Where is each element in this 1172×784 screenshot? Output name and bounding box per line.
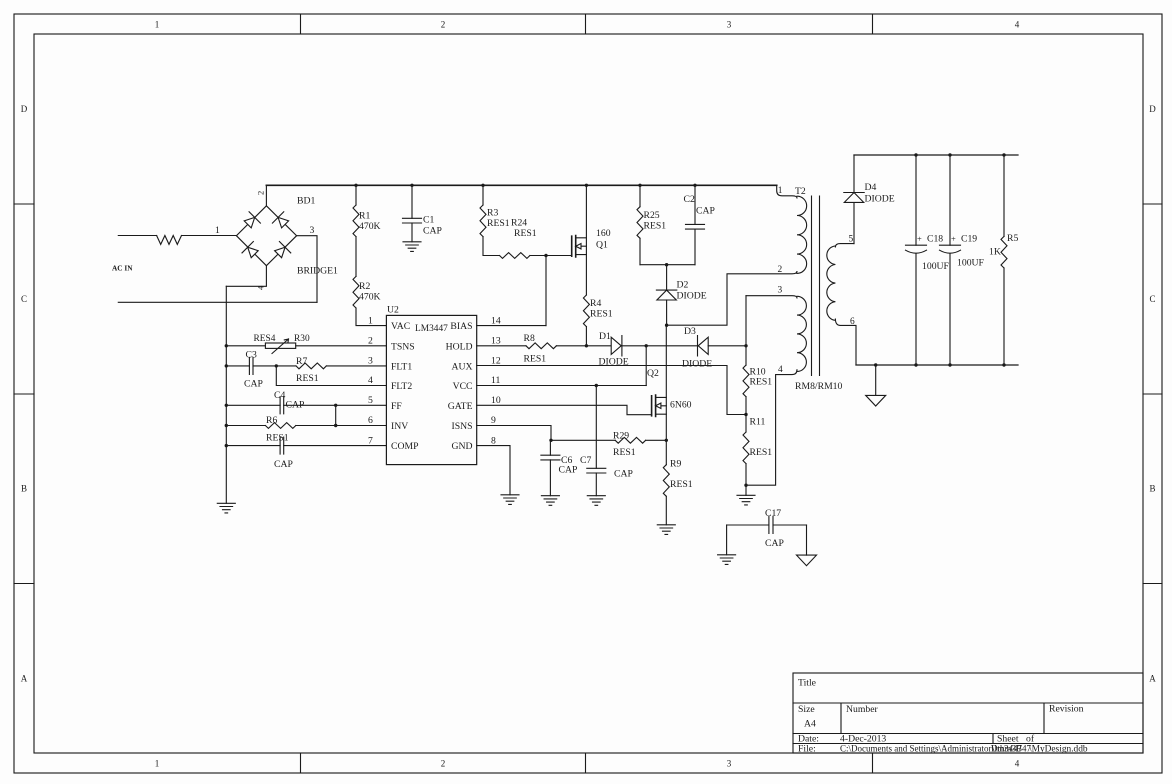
svg-text:A: A: [21, 674, 28, 684]
svg-text:BRIDGE1: BRIDGE1: [297, 266, 338, 277]
capacitor C7 CAP: [595, 386, 597, 469]
wire VCC riser: [645, 346, 647, 386]
junction (D2 bottom / T2 pin2 net): [665, 324, 668, 327]
svg-text:2: 2: [256, 191, 266, 195]
pin numbers U2 left: [368, 315, 373, 446]
svg-text:C18: C18: [927, 234, 943, 245]
bridge diode (pin4 to pin1, bottom-left): [242, 242, 258, 258]
wire D3 to R10 node: [708, 345, 746, 347]
wire output return rail: [856, 364, 1018, 366]
svg-text:1K: 1K: [989, 247, 1001, 258]
svg-text:RES1: RES1: [613, 447, 636, 458]
wire R8 to D1: [556, 345, 611, 347]
svg-text:3: 3: [727, 759, 732, 769]
wire output + rail: [854, 154, 1018, 156]
svg-text:14: 14: [491, 315, 501, 326]
svg-text:4: 4: [368, 375, 373, 386]
svg-text:D2: D2: [677, 280, 689, 291]
junction (R1/HV): [354, 184, 357, 187]
svg-text:9: 9: [491, 415, 496, 426]
resistor R29 RES1: [551, 439, 615, 441]
capacitor C5 CAP (COMP): [226, 445, 280, 447]
transformer T2 secondary winding (pins 5-6): [835, 244, 854, 247]
wire FF-INV jog: [335, 405, 337, 425]
svg-text:RES1: RES1: [487, 218, 510, 229]
resistor (AC inline, unlabeled): [157, 236, 182, 245]
resistor R4 RES1: [583, 295, 589, 327]
junction (R3/HV): [481, 184, 484, 187]
svg-text:2: 2: [778, 265, 783, 275]
capacitor C1 CAP: [411, 185, 413, 218]
svg-text:+: +: [917, 234, 922, 244]
svg-text:12: 12: [491, 356, 501, 367]
junction (Q1 drain/HV): [585, 184, 588, 187]
svg-text:7: 7: [368, 435, 373, 446]
resistor R6 RES1: [226, 425, 265, 427]
svg-text:COMP: COMP: [391, 441, 418, 452]
junction (R10/R11/AUX): [744, 413, 747, 416]
svg-text:2: 2: [368, 336, 373, 347]
junction (D3/R10/T2 pin3): [744, 344, 747, 347]
svg-text:ISNS: ISNS: [452, 421, 473, 432]
junction (VCC rectifier node): [645, 344, 648, 347]
svg-text:TSNS: TSNS: [391, 341, 415, 352]
svg-text:RES1: RES1: [750, 447, 773, 458]
svg-text:470K: 470K: [359, 221, 381, 232]
svg-text:6N60: 6N60: [670, 400, 692, 411]
svg-text:C7: C7: [580, 455, 591, 466]
capacitor C19 100UF: [949, 155, 951, 245]
wire TSNS: [226, 345, 386, 347]
bridge rectifier BD1 diamond: [236, 206, 296, 266]
svg-text:11: 11: [491, 375, 500, 386]
svg-text:R9: R9: [670, 459, 681, 470]
svg-text:RES1: RES1: [670, 479, 693, 490]
svg-text:R7: R7: [296, 356, 307, 367]
svg-text:3: 3: [727, 20, 732, 30]
resistor R3 RES1: [482, 185, 484, 205]
svg-text:C17: C17: [765, 508, 781, 519]
svg-text:C: C: [21, 294, 27, 304]
svg-text:A4: A4: [804, 719, 816, 730]
svg-text:LM3447: LM3447: [415, 324, 448, 334]
capacitor C3 CAP: [226, 365, 249, 367]
svg-text:D: D: [1149, 104, 1156, 114]
transistor Q1 160 (MOSFET): [585, 185, 587, 295]
wire R25/C2 bottom: [640, 264, 695, 266]
junction (BIAS tap): [544, 254, 547, 257]
svg-text:2: 2: [441, 759, 446, 769]
svg-text:4: 4: [1015, 759, 1020, 769]
svg-text:RES1: RES1: [514, 228, 537, 239]
svg-text:1: 1: [155, 759, 160, 769]
junction (FF jog): [334, 404, 337, 407]
svg-text:6: 6: [850, 317, 855, 327]
capacitor C18 100UF: [915, 155, 917, 245]
svg-text:Title: Title: [798, 678, 816, 689]
title block: [793, 673, 1143, 753]
svg-text:CAP: CAP: [423, 226, 442, 237]
svg-text:3: 3: [368, 356, 373, 367]
svg-text:T2: T2: [795, 186, 806, 197]
junction (R4/HOLD): [585, 344, 588, 347]
transformer T2 primary winding 1 (pins 1-2): [777, 185, 797, 198]
resistor R24 RES1: [500, 253, 530, 259]
BD1 pin 3 wire down to AC bottom: [297, 236, 317, 303]
svg-text:1: 1: [778, 186, 783, 196]
wire GATE (pin10): [477, 405, 652, 414]
svg-text:File:: File:: [798, 744, 816, 755]
wire FLT2 jog: [276, 366, 386, 386]
svg-text:DIODE: DIODE: [677, 291, 707, 302]
wire R1-R2: [355, 237, 357, 277]
op-amp U2 LM3447 (controller IC): [386, 315, 476, 464]
svg-text:C:\Documents and Settings\Admi: C:\Documents and Settings\Administrator\: [840, 744, 994, 754]
wire rectified HV rail: [266, 184, 776, 186]
svg-text:C2: C2: [684, 194, 695, 205]
svg-text:RES4: RES4: [254, 334, 276, 344]
svg-text:R3: R3: [487, 208, 498, 219]
diode D1 DIODE: [611, 336, 622, 356]
svg-text:C1: C1: [423, 215, 434, 226]
wire FF: [284, 404, 387, 406]
wire GND (pin8): [477, 446, 510, 495]
ground (C6): [541, 496, 559, 506]
svg-text:R5: R5: [1007, 233, 1018, 244]
diode D3 DIODE: [698, 336, 709, 356]
svg-text:+: +: [951, 234, 956, 244]
svg-text:RES1: RES1: [750, 377, 773, 388]
resistor R25 RES1: [639, 185, 641, 206]
svg-text:CAP: CAP: [274, 459, 293, 470]
bridge diode (pin4 to pin3, bottom-right): [275, 242, 291, 258]
wire R3 to R24: [483, 237, 500, 256]
svg-text:5: 5: [849, 235, 854, 245]
svg-text:\lm3447: \lm3447: [992, 744, 1023, 754]
wire R2 to U2 pin 1: [356, 308, 386, 326]
capacitor C6 CAP: [549, 440, 551, 455]
svg-text:R30: R30: [294, 334, 310, 344]
transformer T2 core: [812, 196, 820, 376]
svg-text:CAP: CAP: [559, 465, 578, 476]
svg-text:D3: D3: [684, 326, 696, 337]
svg-text:4: 4: [1015, 20, 1020, 30]
svg-text:R2: R2: [359, 281, 370, 292]
junction (R25/HV): [638, 184, 641, 187]
svg-text:\MyDesign.ddb: \MyDesign.ddb: [1029, 745, 1088, 755]
svg-text:INV: INV: [391, 421, 408, 432]
BD1 pin 4 wire to left rail: [226, 266, 266, 287]
svg-text:VAC: VAC: [391, 321, 410, 332]
resistor R7 RES1: [296, 363, 326, 369]
svg-text:2: 2: [441, 20, 446, 30]
diode D4 DIODE: [853, 203, 855, 244]
svg-text:RES1: RES1: [644, 221, 667, 232]
ground (C1): [403, 242, 421, 252]
junction dots on left rail: [225, 344, 228, 347]
wire to bridge pin 1: [182, 235, 237, 237]
svg-text:C: C: [1149, 294, 1155, 304]
resistor R1 470K: [355, 185, 357, 205]
resistor R11 RES1: [745, 397, 747, 432]
ground (C17 right, arrow): [806, 525, 808, 555]
svg-text:RM8/RM10: RM8/RM10: [795, 381, 843, 392]
svg-text:1: 1: [155, 20, 160, 30]
transistor Q2 6N60 (MOSFET): [665, 325, 667, 440]
svg-text:RES1: RES1: [266, 433, 289, 444]
svg-text:GATE: GATE: [448, 401, 473, 412]
svg-text:R29: R29: [613, 431, 629, 442]
junction (FLT1/FLT2): [275, 364, 278, 367]
svg-text:AC IN: AC IN: [112, 264, 133, 273]
svg-text:CAP: CAP: [765, 538, 784, 549]
svg-text:GND: GND: [452, 441, 473, 452]
svg-text:D: D: [21, 104, 28, 114]
wire R4 to HOLD line: [585, 327, 587, 346]
svg-text:R4: R4: [590, 298, 601, 309]
svg-text:13: 13: [491, 336, 501, 347]
resistor R2 470K: [353, 276, 359, 308]
svg-text:100UF: 100UF: [957, 258, 985, 269]
ground (C7): [587, 496, 605, 506]
junction (D2 top): [665, 263, 668, 266]
ground (U2 GND): [501, 495, 519, 505]
wire left rail (bridge pin4 down): [225, 286, 227, 503]
junction (INV jog): [334, 424, 337, 427]
svg-text:R11: R11: [750, 417, 766, 428]
junction (ISNS/C6/R29): [549, 439, 552, 442]
wire ISNS (pin9): [477, 426, 551, 441]
svg-text:C4: C4: [274, 390, 285, 401]
svg-text:FF: FF: [391, 401, 402, 412]
wire AUX (pin12): [477, 366, 746, 415]
svg-text:R6: R6: [266, 415, 277, 426]
ground (output, arrow): [875, 365, 877, 395]
svg-text:FLT2: FLT2: [391, 381, 412, 392]
svg-text:CAP: CAP: [614, 469, 633, 480]
svg-text:Number: Number: [846, 704, 879, 715]
wire FLT1: [253, 365, 386, 367]
wire D1 to D3: [622, 345, 698, 347]
svg-text:8: 8: [491, 435, 496, 446]
diode D2 DIODE: [666, 265, 668, 290]
svg-text:R24: R24: [511, 218, 527, 229]
svg-text:R25: R25: [644, 210, 660, 221]
svg-text:5: 5: [368, 395, 373, 406]
svg-text:1: 1: [368, 315, 373, 326]
svg-text:100UF: 100UF: [922, 261, 950, 272]
wire BIAS (pin14): [477, 325, 546, 327]
junction (C1/HV): [410, 184, 413, 187]
svg-text:CAP: CAP: [244, 379, 263, 390]
ground (R11): [737, 495, 755, 505]
bridge diode (pin1 to pin2, top-left): [244, 212, 260, 228]
transformer T2 primary winding 2 (pins 3-4): [746, 296, 797, 298]
ground (left rail): [217, 503, 235, 513]
svg-text:VCC: VCC: [453, 381, 473, 392]
svg-text:4: 4: [778, 365, 783, 375]
svg-text:1: 1: [215, 225, 220, 236]
resistor R9 RES1: [665, 440, 667, 464]
svg-text:6: 6: [368, 415, 373, 426]
junction (R11 bottom / T2 pin4): [744, 484, 747, 487]
svg-text:B: B: [21, 484, 27, 494]
svg-text:RES1: RES1: [296, 373, 319, 384]
wire HOLD (pin13) to R8: [477, 345, 526, 347]
svg-text:BD1: BD1: [297, 196, 315, 207]
svg-text:R8: R8: [524, 333, 535, 344]
svg-text:D4: D4: [865, 182, 877, 193]
svg-text:160: 160: [596, 228, 611, 239]
svg-text:D1: D1: [599, 331, 611, 342]
svg-text:C19: C19: [961, 234, 977, 245]
junction (C2/HV): [693, 184, 696, 187]
svg-text:U2: U2: [387, 305, 399, 316]
svg-text:RES1: RES1: [590, 309, 613, 320]
ground (C17 left): [726, 525, 728, 555]
svg-text:Q1: Q1: [596, 240, 608, 251]
resistor R30 RES4 (varistor style): [265, 343, 295, 348]
wire VCC (pin11): [477, 385, 647, 387]
svg-text:B: B: [1149, 484, 1155, 494]
wire AC IN top lead: [118, 235, 156, 237]
svg-text:RES1: RES1: [524, 354, 547, 365]
wire AC IN bottom lead: [118, 301, 317, 303]
pin numbers U2 right: [491, 315, 501, 446]
wire T2 pin3 riser: [745, 296, 747, 346]
svg-text:FLT1: FLT1: [391, 361, 412, 372]
capacitor C2 CAP: [694, 185, 696, 224]
capacitor C4 CAP: [226, 404, 280, 406]
capacitor C17 CAP: [727, 524, 769, 526]
svg-text:AUX: AUX: [452, 361, 473, 372]
svg-text:3: 3: [310, 225, 315, 236]
svg-text:C3: C3: [246, 350, 257, 361]
svg-text:DIODE: DIODE: [865, 194, 895, 205]
BD1 pin 2 wire to HV rail: [265, 185, 267, 206]
junction (Q2 source/R9): [665, 439, 668, 442]
svg-text:BIAS: BIAS: [450, 321, 472, 332]
svg-text:DIODE: DIODE: [682, 359, 712, 370]
svg-text:3: 3: [778, 286, 783, 296]
svg-text:R1: R1: [359, 211, 370, 222]
ground (R9): [657, 525, 675, 535]
svg-text:10: 10: [491, 395, 501, 406]
resistor R8 RES1: [526, 343, 556, 349]
svg-text:Q2: Q2: [647, 368, 659, 379]
svg-text:Size: Size: [798, 704, 815, 715]
bridge diode (pin3 to pin2, top-right): [272, 212, 288, 228]
svg-text:CAP: CAP: [696, 206, 715, 217]
resistor R10 RES1: [745, 346, 747, 365]
svg-text:HOLD: HOLD: [446, 341, 473, 352]
resistor R5 1K: [1003, 155, 1005, 236]
wire BIAS column: [545, 256, 547, 326]
svg-text:A: A: [1149, 674, 1156, 684]
svg-text:Revision: Revision: [1049, 704, 1084, 715]
svg-text:470K: 470K: [359, 292, 381, 303]
wire R24 to Q1 gate: [530, 255, 572, 257]
junction (C7 tap): [595, 384, 598, 387]
